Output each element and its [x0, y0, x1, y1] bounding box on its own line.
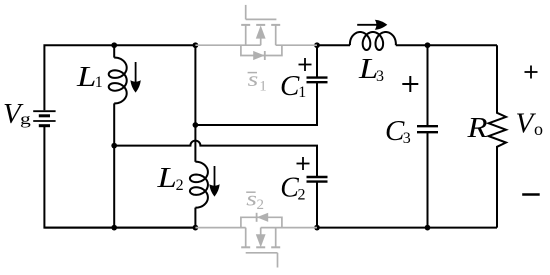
- s1 body diode loop: [241, 45, 282, 55]
- s2 gate bar: [246, 252, 278, 254]
- s2 gate lead: [277, 253, 279, 268]
- node dots: [111, 42, 430, 230]
- current arrow L1: [131, 62, 141, 93]
- s1 gate lead: [245, 5, 247, 20]
- wire L1 bottom to C2 (with hop over middle rail): [114, 141, 317, 177]
- wire bottom left segment to s2: [44, 227, 195, 229]
- resistor R: [489, 45, 506, 227]
- plus sign C1: [299, 58, 312, 71]
- minus sign Vo: [522, 193, 540, 195]
- node L1 bottom-rail junction: [111, 225, 117, 231]
- plus sign C2: [297, 157, 310, 170]
- switch s2 MOSFET (gray, inactive): [195, 213, 317, 268]
- inductor L2: [194, 125, 196, 162]
- svg-text:2: 2: [298, 186, 306, 203]
- svg-text:o: o: [534, 119, 543, 139]
- svg-text:2: 2: [257, 197, 265, 213]
- s2 drain stub: [275, 228, 277, 248]
- s2 channel bars: [241, 246, 250, 248]
- svg-text:L: L: [76, 60, 96, 93]
- wire bottom right rail: [317, 227, 497, 229]
- node C (C3 top): [425, 42, 431, 48]
- node C3 bottom: [425, 225, 431, 231]
- wire bottom rail: [44, 127, 195, 228]
- s1 bulk lead + arrow: [260, 34, 262, 45]
- node L1 bottom: [111, 143, 117, 149]
- s2 lead right + bulk connector: [261, 227, 317, 229]
- plus sign Vo: [525, 66, 538, 79]
- svg-text:2: 2: [176, 177, 184, 194]
- inductor L3: [350, 32, 396, 50]
- wire C1 branch: node A down-right to C1 bottom: [195, 45, 317, 125]
- s1 channel bars: [241, 24, 250, 26]
- wire L3 to node C: [396, 44, 497, 46]
- node C2 bottom / s2 right: [314, 225, 320, 231]
- svg-text:1: 1: [95, 74, 103, 91]
- node A (rail top): [193, 42, 199, 48]
- s2 source stub: [245, 228, 247, 248]
- svg-text:1: 1: [259, 79, 267, 95]
- wire C1 top to node B: [316, 45, 318, 77]
- wire node C down / capacitor C3: [427, 45, 429, 126]
- s2 bulk lead + arrow: [260, 228, 262, 239]
- capacitor C1: [307, 81, 328, 83]
- wire node B to L3: [317, 44, 350, 46]
- inductor L1: [113, 45, 115, 57]
- svg-text:C: C: [280, 70, 300, 102]
- node L1 top: [111, 42, 117, 48]
- s2 body diode loop: [241, 217, 282, 227]
- switch s1 MOSFET (gray, inactive): [195, 5, 317, 60]
- wire C2 bottom to bottom rail: [316, 182, 318, 228]
- s1 lead left + bulk connector: [195, 44, 260, 46]
- svg-text:3: 3: [403, 130, 411, 147]
- s1 lead right: [276, 44, 317, 46]
- s1 drain stub: [275, 25, 277, 45]
- svg-text:L: L: [156, 161, 176, 194]
- s1 gate bar: [246, 18, 277, 20]
- svg-text:s: s: [248, 68, 259, 91]
- node B (C1 top): [314, 42, 320, 48]
- node C1-bottom junction: [193, 122, 199, 128]
- plus sign C3: [402, 76, 418, 92]
- s2 lead left: [195, 227, 245, 229]
- svg-text:1: 1: [298, 84, 306, 101]
- current arrow L2: [209, 166, 219, 197]
- svg-text:g: g: [20, 111, 31, 129]
- svg-text:s: s: [246, 188, 257, 211]
- voltage source Vg battery: [33, 111, 55, 126]
- capacitor C2: [307, 176, 328, 178]
- node L2 bottom / s2 left: [193, 225, 199, 231]
- s1 source stub: [245, 25, 247, 45]
- svg-text:R: R: [466, 111, 487, 144]
- current arrow L3: [357, 20, 387, 30]
- wire top from Vg to node A: [44, 45, 195, 110]
- svg-text:3: 3: [376, 68, 384, 85]
